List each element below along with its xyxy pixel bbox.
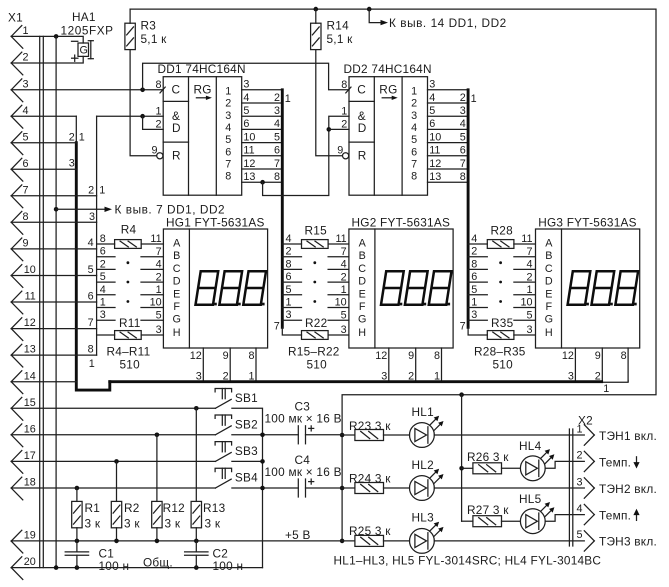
svg-text:R4–R11: R4–R11 [107, 345, 151, 359]
svg-text:100 мк × 16 В: 100 мк × 16 В [265, 465, 342, 479]
connector X2 [569, 414, 657, 552]
svg-text:5: 5 [341, 309, 347, 321]
svg-text:5: 5 [88, 264, 94, 276]
svg-text:HL4: HL4 [519, 439, 542, 453]
wire HL4 to X2 pin2 [545, 461, 584, 468]
capacitor C4 [265, 453, 343, 497]
svg-text:7: 7 [156, 246, 162, 258]
pushbutton SB2 symbol [215, 415, 232, 435]
svg-text:HA1: HA1 [72, 10, 96, 24]
wire pin14 [11, 381, 76, 383]
svg-text:13: 13 [24, 344, 36, 356]
svg-text:F: F [173, 301, 180, 313]
svg-text:4: 4 [88, 237, 94, 249]
svg-text:6: 6 [88, 290, 94, 302]
wire pin11 [11, 290, 96, 302]
svg-text:G: G [80, 45, 88, 57]
wire HL5 to X2 pin4 [545, 515, 584, 522]
svg-text:3 к: 3 к [85, 517, 101, 531]
svg-text:X1: X1 [8, 11, 23, 25]
wire GND column [55, 36, 57, 567]
svg-text:R12: R12 [163, 501, 185, 515]
svg-text:7: 7 [274, 321, 280, 333]
svg-text:R26 3 к: R26 3 к [467, 450, 509, 464]
svg-text:5: 5 [274, 131, 280, 143]
capacitor C1 [65, 541, 129, 573]
svg-text:HL5: HL5 [519, 492, 542, 506]
svg-text:HL1: HL1 [412, 405, 434, 419]
dots for omitted resistors R5-R10 [127, 261, 130, 264]
HG3 pin8 jog to bus end [602, 381, 629, 383]
svg-text:R15: R15 [305, 224, 328, 238]
net labels [100, 233, 106, 321]
wire HL2 to X2 pin3 [434, 487, 584, 489]
pushbutton SB2 [11, 415, 298, 437]
svg-text:3: 3 [576, 476, 582, 488]
svg-text:4: 4 [243, 92, 249, 104]
wire X1 row to SB3 [11, 460, 215, 462]
svg-text:+5 В: +5 В [285, 528, 311, 542]
svg-text:6: 6 [100, 246, 106, 258]
svg-text:5: 5 [286, 284, 292, 296]
resistor R27 [462, 503, 510, 527]
svg-text:RG: RG [194, 82, 212, 96]
svg-text:11: 11 [335, 233, 346, 245]
svg-text:5: 5 [22, 131, 28, 143]
GND row [11, 556, 262, 570]
svg-text:18: 18 [24, 477, 36, 489]
resistor ladder HG2 R15-R22 [274, 233, 349, 339]
svg-text:5: 5 [576, 529, 582, 541]
svg-text:3: 3 [156, 324, 162, 336]
LED HL2 [384, 458, 444, 501]
svg-text:HL3: HL3 [412, 510, 435, 524]
svg-text:1: 1 [603, 383, 609, 395]
svg-text:2: 2 [341, 271, 347, 283]
svg-text:4: 4 [341, 259, 347, 271]
svg-text:8: 8 [88, 344, 94, 356]
left bus vertical [76, 116, 110, 390]
svg-text:4: 4 [100, 284, 106, 296]
svg-text:SB3: SB3 [235, 444, 258, 458]
svg-text:13: 13 [243, 171, 255, 183]
svg-text:2: 2 [100, 258, 106, 270]
thick bottom bus [110, 380, 602, 383]
top +5V rail [130, 7, 656, 543]
svg-text:G: G [172, 314, 180, 326]
pushbutton SB4 [11, 468, 298, 490]
svg-text:7: 7 [274, 158, 280, 170]
resistor R3 [125, 9, 167, 50]
svg-text:10: 10 [24, 264, 36, 276]
svg-text:8: 8 [155, 79, 161, 91]
svg-text:3 к: 3 к [165, 517, 181, 531]
svg-text:2: 2 [22, 52, 28, 64]
DD1 output bus / HG2 group line [281, 90, 284, 327]
svg-text:4: 4 [156, 259, 162, 271]
svg-text:1: 1 [79, 131, 85, 143]
svg-text:12: 12 [190, 350, 202, 362]
wire R3 to DD1 R [130, 50, 156, 156]
svg-text:5: 5 [225, 134, 231, 146]
svg-text:R27 3 к: R27 3 к [467, 503, 509, 517]
svg-text:3: 3 [341, 324, 347, 336]
IC DD1 74HC164N [158, 62, 246, 76]
svg-text:5: 5 [243, 105, 249, 117]
svg-text:4: 4 [274, 118, 280, 130]
capacitor C2 [185, 541, 244, 573]
display HG2 FYT-5631AS [349, 215, 453, 382]
svg-text:3: 3 [286, 309, 292, 321]
svg-text:HG1 FYT-5631AS: HG1 FYT-5631AS [166, 215, 265, 229]
resistor R2 [111, 461, 140, 541]
svg-text:3: 3 [225, 110, 231, 122]
svg-text:4: 4 [576, 503, 582, 515]
svg-text:6: 6 [225, 146, 231, 158]
svg-text:6: 6 [22, 158, 28, 170]
resistor ladder HG1 R4-R11 [97, 223, 164, 372]
svg-text:12: 12 [243, 158, 255, 170]
resistor R25 [349, 524, 391, 547]
svg-text:R35: R35 [491, 316, 514, 330]
wire pin4 to left bus [11, 115, 76, 117]
svg-text:11: 11 [150, 233, 161, 245]
resistor R1 [72, 488, 101, 541]
svg-text:R28: R28 [491, 224, 514, 238]
wire R14 to DD2 R [316, 50, 342, 156]
caption LED types [334, 554, 602, 568]
svg-text:2: 2 [156, 271, 162, 283]
X1 cable lines [40, 36, 44, 567]
svg-text:100 н: 100 н [99, 559, 130, 573]
HG1 group line [96, 116, 98, 355]
svg-text:2: 2 [274, 92, 280, 104]
svg-text:A: A [173, 238, 181, 250]
svg-text:1: 1 [156, 284, 162, 296]
svg-text:B: B [173, 250, 180, 262]
pushbutton SB1 [11, 389, 262, 568]
wire HL3 to X2 pin5 [434, 540, 584, 542]
svg-text:R14: R14 [327, 19, 350, 33]
svg-text:R2: R2 [124, 501, 140, 515]
DD1 output branch lines to bus [242, 89, 283, 91]
svg-text:10: 10 [150, 297, 162, 309]
svg-text:3: 3 [100, 309, 106, 321]
svg-text:1205FXP: 1205FXP [61, 24, 114, 38]
LED HL5 [502, 492, 555, 534]
svg-text:R4: R4 [121, 223, 137, 237]
resistor R4 [97, 243, 115, 245]
pushbutton SB4 symbol [215, 468, 232, 488]
wire pin9 [11, 237, 96, 249]
svg-text:R22: R22 [305, 316, 327, 330]
svg-text:5,1 к: 5,1 к [327, 32, 354, 46]
svg-text:20: 20 [24, 556, 36, 568]
svg-text:510: 510 [493, 358, 514, 372]
svg-text:Темп.: Темп. [599, 455, 631, 469]
svg-text:19: 19 [24, 530, 36, 542]
svg-text:R15–R22: R15–R22 [288, 345, 340, 359]
wire DD1 Q7 to DD2 D [260, 116, 349, 195]
svg-text:14: 14 [24, 370, 36, 382]
svg-text:H: H [173, 327, 181, 339]
wire X1 row to SB1 [11, 407, 215, 409]
svg-text:1: 1 [99, 185, 105, 197]
svg-text:3 к: 3 к [124, 517, 140, 531]
svg-text:2: 2 [69, 131, 75, 143]
display HG3 FYT-5631AS [536, 215, 640, 382]
svg-text:1: 1 [155, 106, 161, 118]
svg-text:R1: R1 [85, 501, 101, 515]
svg-text:3: 3 [22, 78, 28, 90]
svg-text:1: 1 [225, 85, 231, 97]
svg-text:R25 3 к: R25 3 к [349, 524, 391, 538]
capacitor C3 [265, 400, 343, 444]
svg-text:C: C [172, 82, 181, 96]
svg-text:3 к: 3 к [205, 517, 221, 531]
R26 column from +5 [459, 395, 464, 522]
svg-text:10: 10 [335, 297, 347, 309]
svg-text:1: 1 [576, 423, 582, 435]
svg-text:E: E [173, 288, 180, 300]
svg-text:6: 6 [274, 145, 280, 157]
resistor R26 [462, 450, 510, 474]
svg-text:11: 11 [243, 145, 254, 157]
resistor R13 [191, 408, 225, 541]
digit select labels 1 [248, 371, 440, 383]
wire pin5 [11, 131, 85, 143]
svg-text:3: 3 [243, 79, 249, 91]
svg-text:1: 1 [286, 297, 292, 309]
svg-text:SB4: SB4 [235, 471, 258, 485]
svg-text:8: 8 [22, 211, 28, 223]
LED HL3 [384, 510, 444, 553]
svg-text:1: 1 [100, 297, 106, 309]
svg-text:1: 1 [285, 93, 291, 105]
dots for omitted resistors [313, 261, 316, 264]
svg-text:HL1–HL3, HL5 FYL-3014SRC; HL4: HL1–HL3, HL5 FYL-3014SRC; HL4 FYL-3014BC [334, 554, 602, 568]
temp down arrow [633, 457, 639, 469]
svg-text:8: 8 [100, 233, 106, 245]
svg-text:HG3 FYT-5631AS: HG3 FYT-5631AS [538, 215, 637, 229]
wire pin7 [11, 185, 105, 197]
wire HL1 to X2 pin1 [434, 434, 584, 436]
svg-text:D: D [172, 121, 181, 135]
svg-text:2: 2 [286, 246, 292, 258]
wire pin13 [11, 344, 96, 370]
temp up arrow [633, 509, 639, 521]
LED HL4 [502, 439, 555, 481]
svg-text:16: 16 [24, 423, 36, 435]
svg-text:ТЭН3 вкл.: ТЭН3 вкл. [599, 535, 657, 549]
svg-text:510: 510 [307, 358, 328, 372]
svg-text:7: 7 [22, 184, 28, 196]
svg-text:10: 10 [243, 131, 255, 143]
wire pin12 [11, 317, 96, 329]
svg-text:7: 7 [225, 159, 231, 171]
resistor R15 [282, 243, 301, 245]
resistor ladder HG3 R28-R35 [460, 224, 535, 372]
svg-text:3: 3 [69, 158, 75, 170]
svg-text:1: 1 [89, 358, 95, 370]
svg-text:5,1 к: 5,1 к [141, 32, 168, 46]
svg-text:7: 7 [88, 317, 94, 329]
svg-text:1: 1 [341, 284, 347, 296]
svg-text:5: 5 [156, 309, 162, 321]
svg-text:DD1 74HC164N: DD1 74HC164N [158, 62, 246, 76]
svg-text:12: 12 [24, 317, 36, 329]
IC DD2 74HC164N [344, 62, 432, 76]
svg-text:R: R [172, 149, 181, 163]
svg-text:3: 3 [274, 105, 280, 117]
wire data to DD1 D pins 1,2 [97, 114, 164, 130]
buzzer HA1 [61, 10, 114, 61]
svg-text:11: 11 [25, 291, 36, 303]
LED HL1 [384, 405, 444, 447]
svg-text:4: 4 [286, 233, 292, 245]
label K vyv 14 [369, 9, 507, 30]
svg-text:R13: R13 [203, 501, 226, 515]
svg-text:8: 8 [274, 171, 280, 183]
svg-text:6: 6 [243, 118, 249, 130]
svg-text:ТЭН2 вкл.: ТЭН2 вкл. [599, 482, 657, 496]
svg-text:6: 6 [286, 271, 292, 283]
svg-text:D: D [173, 276, 181, 288]
wire X1 row to SB4 [11, 487, 215, 489]
wire clock pin3 to DD1 C and DD2 C [11, 63, 349, 92]
resistor R11 [97, 334, 115, 336]
wire pin10 [11, 264, 96, 276]
wire pin8 [11, 211, 96, 223]
pushbutton SB1 symbol [215, 389, 232, 409]
svg-text:C: C [173, 263, 181, 275]
wire X1 row to SB2 [11, 434, 215, 436]
svg-text:HL2: HL2 [412, 458, 434, 472]
svg-text:8: 8 [286, 258, 292, 270]
svg-text:5: 5 [100, 271, 106, 283]
DD2 output bus / HG3 group line [467, 90, 470, 327]
svg-text:2: 2 [88, 185, 94, 197]
svg-text:3: 3 [89, 211, 95, 223]
pushbutton SB3 symbol [215, 442, 232, 462]
wire pin1 to buzzer minus [11, 34, 83, 43]
GND arrow K vyv 7 [54, 203, 225, 217]
svg-text:SB1: SB1 [235, 391, 258, 405]
wire pin6 [11, 158, 76, 170]
svg-text:R24 3 к: R24 3 к [349, 471, 391, 485]
svg-text:7: 7 [341, 246, 347, 258]
svg-text:1: 1 [22, 25, 28, 37]
display HG1 FYT-5631AS [166, 215, 265, 229]
svg-text:17: 17 [24, 450, 36, 462]
wire pin2 to buzzer plus [11, 56, 83, 63]
svg-text:SB2: SB2 [235, 417, 258, 431]
svg-text:ТЭН1 вкл.: ТЭН1 вкл. [599, 429, 657, 443]
svg-text:15: 15 [24, 397, 36, 409]
resistor R23 [342, 419, 391, 441]
svg-text:2: 2 [576, 450, 582, 462]
svg-text:К выв. 14 DD1, DD2: К выв. 14 DD1, DD2 [389, 16, 507, 30]
svg-text:R3: R3 [141, 19, 157, 33]
svg-text:R11: R11 [119, 316, 141, 330]
svg-text:4: 4 [225, 122, 231, 134]
svg-text:DD2 74HC164N: DD2 74HC164N [344, 62, 432, 76]
resistor R14 [311, 9, 354, 50]
svg-text:2: 2 [225, 98, 231, 110]
svg-text:8: 8 [248, 350, 254, 362]
+5V row [11, 528, 354, 543]
svg-text:R23 3 к: R23 3 к [349, 419, 391, 433]
svg-text:9: 9 [223, 350, 229, 362]
svg-text:100 н: 100 н [213, 559, 244, 573]
svg-text:4: 4 [22, 105, 28, 117]
pushbutton SB3 [11, 442, 265, 464]
svg-text:2: 2 [155, 118, 161, 130]
svg-text:HG2 FYT-5631AS: HG2 FYT-5631AS [352, 215, 451, 229]
svg-text:8: 8 [225, 171, 231, 183]
svg-text:510: 510 [120, 358, 141, 372]
resistor R22 [282, 327, 301, 335]
svg-text:9: 9 [151, 144, 157, 156]
connector X1 [8, 11, 36, 580]
svg-text:9: 9 [22, 238, 28, 250]
svg-text:Общ.: Общ. [143, 556, 173, 570]
svg-text:R28–R35: R28–R35 [474, 345, 526, 359]
wires rows B-G [97, 256, 115, 258]
svg-text:100 мк × 16 В: 100 мк × 16 В [265, 412, 342, 426]
resistor R24 [342, 471, 391, 493]
resistor R12 [152, 435, 185, 541]
svg-text:Темп.: Темп. [599, 508, 631, 522]
